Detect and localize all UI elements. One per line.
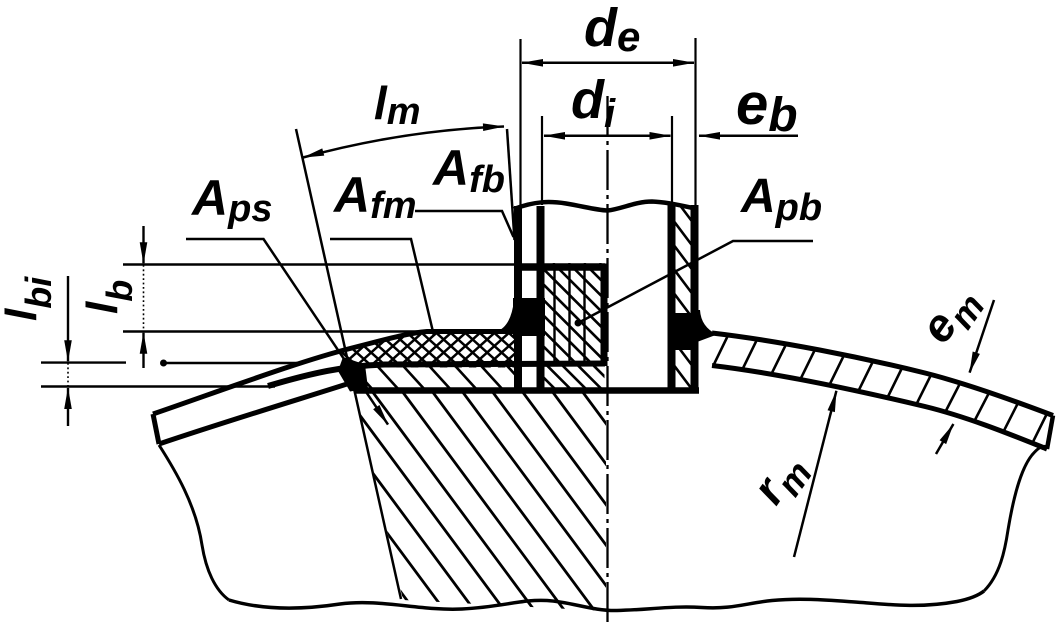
extension line de left <box>519 39 521 206</box>
lm boundary line left (slanted) <box>296 129 401 599</box>
weld/line convergence blob at left junction <box>338 357 368 392</box>
extension line di right <box>671 116 673 205</box>
shell outer surface right <box>712 333 1053 416</box>
dimension di <box>544 135 671 138</box>
extension line di left <box>541 116 543 205</box>
dimension lbi arrows <box>67 276 69 361</box>
dimension eb arrow <box>699 135 798 138</box>
nozzle left outer wall <box>514 206 522 391</box>
lb extension line top (L1) <box>123 263 516 265</box>
hatch Afm weld-metal cross-hatch <box>277 317 628 375</box>
hatch Apb pressure-area diagonals <box>429 263 727 390</box>
label rm (rotated) <box>742 442 821 518</box>
label lbi (rotated) <box>0 276 59 321</box>
nozzle right outer wall <box>691 205 699 391</box>
dimension em arrows <box>970 300 994 373</box>
hatch right shell band <box>714 336 1047 441</box>
interior break line bottom (wavy) <box>229 591 984 611</box>
hatch Apb pressure-area verticals <box>555 266 585 363</box>
lm boundary line right (slanted) <box>507 129 515 240</box>
shell inner surface right <box>712 366 1047 450</box>
lb extension line bottom (L2) <box>123 330 428 332</box>
label em (rotated) <box>910 275 993 357</box>
shell outer surface left <box>153 332 516 415</box>
interior break line left <box>159 445 229 600</box>
lbi extension line node dot <box>160 360 167 367</box>
Apb boundary top <box>514 263 605 271</box>
Apb boundary right <box>601 264 608 367</box>
hatch Aps pressure-area of shell <box>216 383 777 614</box>
label lb (rotated) <box>78 280 140 314</box>
lbi extension line bottom (L4) <box>41 385 275 387</box>
weld fillet left <box>495 300 519 332</box>
shell right end cap <box>1047 416 1053 450</box>
centerline of nozzle (dash-dot) <box>606 96 608 624</box>
nozzle internal protrusion end <box>354 387 699 394</box>
dimension rm radius arrow <box>794 391 836 557</box>
weld fill left wall gap <box>513 298 545 336</box>
weld fillet right <box>697 310 717 342</box>
shell inner surface at nozzle (mid curve to centerline) <box>268 364 605 387</box>
dimension lb arrows <box>142 226 144 263</box>
interior break line right (swoop up) <box>984 446 1047 591</box>
dimension de <box>522 62 694 65</box>
extension line de right <box>694 38 696 206</box>
dimension lm arc <box>303 127 504 158</box>
lbi extension line top (L3) <box>41 361 126 363</box>
nozzle right inner wall <box>668 205 676 391</box>
weld fill right wall gap <box>671 313 698 350</box>
hatch right nozzle wall <box>670 192 700 424</box>
hatch shell sliver below inner surface <box>240 358 562 398</box>
nozzle left inner wall <box>537 206 545 391</box>
shell left end cap <box>153 414 159 444</box>
shell inner surface left (lower curve) <box>159 381 358 445</box>
nozzle break line top (wavy) <box>514 202 697 211</box>
